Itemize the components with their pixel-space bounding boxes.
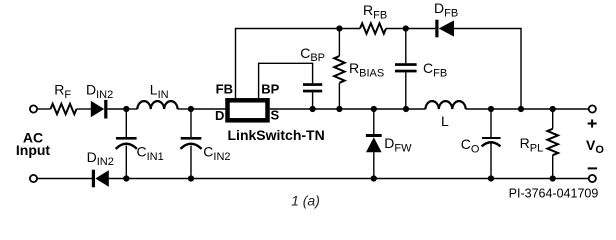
node K (CFB top) bbox=[403, 25, 409, 31]
svg-text:DFB: DFB bbox=[434, 0, 458, 19]
inductor LIN bbox=[137, 101, 177, 109]
terminal AC input top bbox=[30, 105, 37, 112]
wire node D to node E bbox=[339, 108, 373, 110]
svg-text:D: D bbox=[215, 108, 224, 123]
inductor L bbox=[425, 101, 465, 109]
svg-text:RPL: RPL bbox=[520, 135, 544, 154]
svg-text:CFB: CFB bbox=[423, 60, 447, 80]
wire CBP to node C bbox=[312, 92, 314, 109]
node M (CO bottom) bbox=[488, 175, 494, 181]
svg-text:BP: BP bbox=[261, 82, 279, 97]
wire RF to DIN2 bbox=[77, 108, 92, 110]
wire DFB to node H bbox=[454, 29, 521, 110]
node L1 (DFW bottom) bbox=[371, 175, 377, 181]
svg-text:DIN2: DIN2 bbox=[87, 149, 114, 168]
wire node E to node F bbox=[374, 108, 406, 110]
svg-text:CO: CO bbox=[461, 136, 480, 155]
wire node F to L bbox=[406, 108, 425, 110]
svg-text:DFW: DFW bbox=[384, 135, 412, 154]
wire node O to node P bbox=[126, 178, 191, 180]
node D (RBIAS bottom) bbox=[336, 106, 342, 112]
label plus output bbox=[588, 119, 597, 127]
wire LIN to node B bbox=[178, 108, 191, 110]
svg-text:LIN: LIN bbox=[150, 81, 169, 101]
wire RPL to bottom rail bbox=[552, 155, 554, 178]
svg-text:CIN2: CIN2 bbox=[203, 143, 230, 162]
wire CFB to node F bbox=[405, 72, 407, 109]
svg-text:L: L bbox=[441, 113, 449, 129]
node G (CO top) bbox=[488, 106, 494, 112]
svg-text:CIN1: CIN1 bbox=[137, 143, 164, 162]
wire FB pin to feedback rail bbox=[236, 29, 340, 99]
terminal output minus bbox=[589, 175, 596, 182]
resistor RBIAS bbox=[334, 56, 344, 83]
terminal output plus bbox=[589, 105, 596, 112]
capacitor CBP bbox=[303, 83, 322, 92]
wire terminal to DIN2 bottom bbox=[37, 178, 92, 180]
wire RBIAS to node D bbox=[338, 83, 340, 109]
resistor RFB bbox=[360, 23, 386, 33]
wire bottom rail M to N bbox=[491, 178, 553, 180]
resistor RF bbox=[51, 104, 77, 114]
wire node G to CO bbox=[490, 109, 492, 137]
svg-text:S: S bbox=[271, 108, 280, 123]
svg-text:Input: Input bbox=[16, 142, 51, 158]
wire bottom rail P to L1 bbox=[191, 178, 374, 180]
capacitor CO bbox=[482, 137, 501, 146]
wire node G to node H bbox=[491, 108, 521, 110]
diode DIN2 bottom bbox=[92, 170, 109, 188]
wire bottom rail L1 to M bbox=[374, 178, 491, 180]
node C (CBP bottom) bbox=[310, 106, 316, 112]
svg-text:PI-3764-041709: PI-3764-041709 bbox=[509, 186, 599, 200]
node J (feedback rail / RBIAS top) bbox=[336, 25, 342, 31]
wire DIN2 to node A bbox=[107, 108, 126, 110]
node F (CFB bottom) bbox=[403, 106, 409, 112]
label minus output bbox=[588, 167, 597, 169]
wire node E to DFW bbox=[373, 109, 375, 134]
wire node K to DFB bbox=[406, 28, 436, 30]
node N (RPL bottom) bbox=[550, 175, 556, 181]
terminal AC input bottom bbox=[30, 175, 37, 182]
wire node J to RFB bbox=[339, 28, 360, 30]
capacitor CIN1 bbox=[116, 109, 137, 179]
diode DFB bbox=[435, 20, 454, 38]
wire node I to RPL bbox=[552, 109, 554, 129]
svg-text:RFB: RFB bbox=[363, 2, 387, 22]
node B bbox=[188, 106, 194, 112]
node I (RPL top) bbox=[550, 106, 556, 112]
node P (CIN2 bottom) bbox=[188, 175, 194, 181]
svg-text:VO: VO bbox=[586, 137, 604, 156]
svg-text:RBIAS: RBIAS bbox=[349, 60, 384, 80]
diode DFW bbox=[366, 134, 382, 152]
node H (feedback tap) bbox=[518, 106, 524, 112]
diode DIN2 top bbox=[91, 100, 108, 119]
node A bbox=[123, 106, 129, 112]
wire node C to node D bbox=[313, 108, 340, 110]
svg-text:LinkSwitch-TN: LinkSwitch-TN bbox=[228, 127, 325, 143]
svg-text:1 (a): 1 (a) bbox=[291, 193, 320, 209]
IC U1 LinkSwitch-TN body bbox=[228, 100, 268, 120]
capacitor CFB bbox=[395, 63, 417, 72]
svg-text:FB: FB bbox=[216, 82, 233, 97]
wire node J to RBIAS bbox=[338, 29, 340, 57]
wire node K to CFB bbox=[405, 29, 407, 64]
svg-text:DIN2: DIN2 bbox=[86, 81, 113, 101]
wire node B to D pin bbox=[191, 108, 226, 110]
svg-text:RF: RF bbox=[54, 81, 71, 101]
wire BP pin to CBP bbox=[259, 63, 313, 98]
capacitor CIN2 bbox=[180, 109, 201, 179]
resistor RPL bbox=[547, 129, 558, 155]
wire terminal to RF bbox=[37, 108, 50, 110]
wire RFB to node K bbox=[386, 28, 406, 30]
wire CO to bottom rail bbox=[490, 143, 492, 178]
wire S pin to node C bbox=[270, 108, 313, 110]
wire node A to LIN bbox=[126, 108, 137, 110]
wire DFW to bottom rail bbox=[373, 152, 375, 178]
svg-text:CBP: CBP bbox=[300, 45, 325, 64]
node E (DFW top) bbox=[371, 106, 377, 112]
wire node H to node I bbox=[521, 108, 553, 110]
wire DIN2 bottom to node O bbox=[109, 178, 127, 180]
wire node I to output terminal bbox=[553, 108, 589, 110]
wire bottom rail N to output terminal bbox=[553, 178, 589, 180]
wire L to node G bbox=[466, 108, 491, 110]
node O (CIN1 bottom) bbox=[123, 175, 129, 181]
